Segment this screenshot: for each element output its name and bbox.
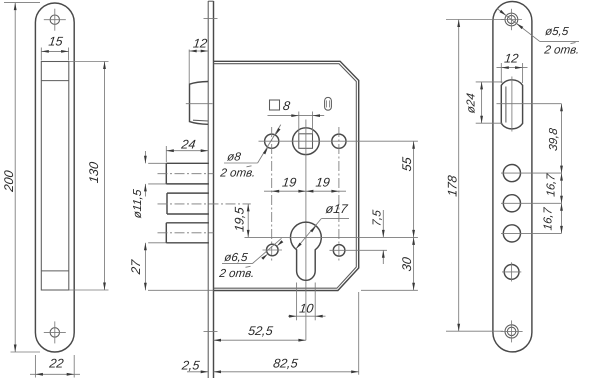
dim 200 (2, 3, 40, 352)
prong 1 centerline (158, 173, 214, 175)
dim 7,5 (371, 209, 385, 264)
svg-text:2,5: 2,5 (180, 358, 201, 372)
dim diameter 24 (464, 82, 502, 123)
left plate cutout lower line (41, 270, 69, 272)
follower centerline (305, 120, 307, 341)
svg-text:ø6,5: ø6,5 (224, 251, 249, 264)
dim 15 (41, 34, 68, 60)
svg-text:ø11,5: ø11,5 (131, 188, 144, 219)
latch row centerline (497, 103, 562, 105)
left plate top screw hole (44, 9, 66, 31)
latch window v centerline (511, 77, 513, 132)
right plate hole 2 (501, 195, 562, 212)
svg-text:24: 24 (180, 137, 197, 151)
svg-text:22: 22 (48, 356, 65, 370)
svg-text:200: 200 (2, 170, 16, 194)
svg-text:16,7: 16,7 (545, 173, 558, 198)
svg-text:ø8: ø8 (226, 151, 242, 164)
left plate cutout (41, 62, 69, 291)
follower circle (293, 128, 320, 155)
dim 16,7 lower (542, 203, 563, 233)
svg-text:7,5: 7,5 (371, 209, 384, 227)
prong 3 centerline (158, 232, 214, 234)
svg-text:10: 10 (299, 302, 315, 316)
svg-text:82,5: 82,5 (272, 357, 299, 371)
dim 39,8 (547, 104, 563, 173)
dim 16,7 upper (545, 173, 563, 204)
left plate cutout upper line (41, 80, 69, 82)
dim 22 (30, 355, 80, 378)
hole o8 left (265, 134, 279, 148)
svg-text:30: 30 (400, 256, 414, 272)
prong 2 centerline (158, 203, 251, 205)
dim 12 latch (189, 37, 208, 84)
leader o17 (296, 202, 349, 249)
deadbolt prong 1 (148, 163, 209, 184)
left hole centerline (271, 127, 273, 262)
dim 82,5 (214, 292, 359, 375)
svg-text:19,5: 19,5 (233, 205, 247, 232)
dim 52,5 (214, 324, 306, 341)
hole o6,5 right (330, 245, 388, 257)
dim 19 19 (264, 175, 346, 192)
label o5,5 (543, 25, 581, 56)
right plate hole 1 (501, 165, 562, 182)
svg-text:19: 19 (315, 175, 331, 189)
dim 55 (400, 141, 415, 237)
square hole extension lines (299, 112, 313, 134)
hole o8 right (332, 134, 346, 148)
lock body outline inner (214, 64, 357, 289)
left plate outline (35, 3, 74, 352)
holes row centerline (259, 140, 418, 142)
oval slot (325, 97, 332, 110)
svg-text:39,8: 39,8 (547, 127, 560, 152)
leader o5,5 (497, 9, 579, 42)
dim diameter 11,5 (131, 151, 147, 219)
svg-text:15: 15 (48, 34, 65, 48)
faceplate strip (208, 1, 213, 378)
faceplate screw tick bottom (204, 331, 218, 333)
svg-text:52,5: 52,5 (247, 324, 274, 338)
leader o6,5 (253, 238, 284, 263)
svg-text:ø17: ø17 (325, 202, 349, 216)
dim 24 (166, 137, 208, 162)
keyhole centerline (245, 236, 418, 238)
dim 27 (129, 243, 214, 290)
svg-text:2 отв.: 2 отв. (219, 167, 257, 180)
svg-text:130: 130 (87, 161, 101, 184)
cylinder keyhole (291, 222, 322, 280)
dim 12 right (497, 52, 528, 83)
follower square hole (299, 134, 313, 149)
dim 30 (361, 237, 418, 290)
svg-text:12: 12 (192, 37, 208, 51)
right plate crosshair hole (502, 262, 521, 281)
leader o8 (258, 125, 281, 163)
svg-text:55: 55 (400, 155, 414, 172)
svg-text:16,7: 16,7 (542, 206, 555, 231)
label o8 (219, 151, 258, 180)
svg-text:12: 12 (504, 52, 520, 66)
latch centerline (186, 103, 213, 105)
left plate bottom screw hole (44, 321, 66, 343)
svg-text:2 отв.: 2 отв. (543, 43, 581, 56)
dim 130 (69, 62, 109, 291)
dim 2,5 (180, 358, 208, 373)
right bottom screw hole (501, 320, 523, 342)
svg-text:ø5,5: ø5,5 (544, 25, 569, 38)
dim 178 (446, 20, 503, 332)
right plate outline (493, 2, 532, 352)
right top screw hole (501, 9, 522, 30)
svg-text:19: 19 (281, 175, 297, 189)
svg-text:2 отв.: 2 отв. (218, 267, 256, 280)
svg-text:178: 178 (446, 175, 460, 198)
deadbolt prong 2 (167, 193, 209, 214)
faceplate screw tick top (204, 18, 218, 20)
hole o6,5 left (263, 244, 283, 256)
svg-text:27: 27 (129, 258, 143, 276)
dim 178 top extension (446, 19, 505, 21)
dim square 8 (268, 99, 325, 117)
right hole centerline (338, 127, 340, 262)
latch bolt (190, 82, 209, 125)
label o6,5 (218, 251, 256, 280)
latch window (501, 80, 522, 129)
dim 19,5 (233, 204, 250, 238)
deadbolt prong 3 (148, 223, 209, 243)
lock body outline outer (214, 61, 359, 290)
svg-text:ø24: ø24 (464, 92, 477, 114)
dim 10 (288, 283, 326, 321)
right plate hole 3 (501, 225, 562, 242)
